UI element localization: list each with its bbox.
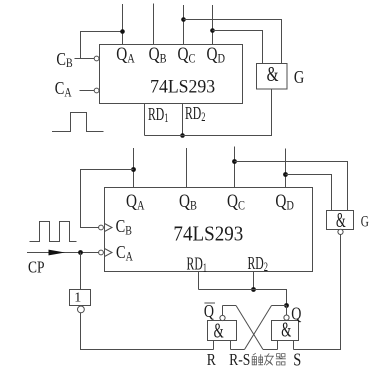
wire inverter output to R input xyxy=(81,313,214,350)
svg-text:QA: QA xyxy=(126,190,145,212)
junction RD2 on reset wire U2 xyxy=(251,287,256,292)
wire Q stub xyxy=(286,306,288,316)
junction RD2 on reset wire U1 xyxy=(180,133,185,138)
svg-text:&: & xyxy=(281,318,291,341)
double clock pulse symbol xyxy=(30,222,77,242)
pin RD1 of U1 xyxy=(145,104,169,136)
NAND gate U4A (RS flip-flop left) xyxy=(208,320,237,343)
wire CP to inverter input xyxy=(80,253,82,290)
chinese char qi (device) xyxy=(276,354,286,365)
inversion bubble CB pin U1 xyxy=(94,56,99,61)
pin RD1 of U2 xyxy=(187,254,207,289)
label CB input of U2 xyxy=(116,215,132,237)
junction QC line U1 xyxy=(181,17,186,22)
chinese char chu (touch) xyxy=(252,353,263,365)
junction CP wire to inverter xyxy=(78,250,83,255)
svg-text:CA: CA xyxy=(55,78,73,100)
dynamic input triangle CB U2 xyxy=(105,224,113,232)
arrowhead on CP wire xyxy=(49,250,66,256)
single clock pulse symbol xyxy=(52,113,104,132)
svg-text:&: & xyxy=(214,320,224,343)
label R xyxy=(207,351,217,370)
label Q xyxy=(291,305,302,324)
wire S-gate input segment xyxy=(263,349,278,351)
NAND gate U4B (RS flip-flop right) xyxy=(272,318,299,341)
junction QA line U1 xyxy=(120,29,125,34)
label G (top gate) xyxy=(294,66,305,87)
IC U2 74LS293 bottom counter body xyxy=(105,188,313,272)
wire cross-couple Q to R-gate diagonal xyxy=(245,306,272,350)
label CA input of U2 xyxy=(116,241,134,263)
pin QC of U2 (output stub) xyxy=(227,147,245,213)
svg-text:QB: QB xyxy=(179,190,197,212)
pin QB of U2 (output stub) xyxy=(179,148,197,213)
svg-text:CP: CP xyxy=(28,258,44,277)
IC U1 74LS293 top counter body xyxy=(100,45,243,104)
svg-text:QB: QB xyxy=(149,43,167,65)
output bubble U4A (Qbar) xyxy=(220,315,225,320)
junction QA line U2 xyxy=(131,167,136,172)
label CB input of U1 xyxy=(56,48,72,70)
label G (bottom gate) xyxy=(361,213,369,230)
svg-text:Q: Q xyxy=(291,305,302,324)
wire cross-couple Qbar to S-gate diagonal xyxy=(236,306,263,350)
svg-text:&: & xyxy=(336,209,346,232)
label CP xyxy=(28,258,44,277)
svg-text:QC: QC xyxy=(178,43,196,65)
pin QA of U1 (output stub) xyxy=(116,4,135,66)
wire G2 output to S input xyxy=(294,235,341,350)
label S xyxy=(293,349,301,370)
NAND gate G2 (bottom right) xyxy=(327,209,354,232)
pin QD of U1 (output stub) xyxy=(206,5,225,66)
wire CP input xyxy=(27,252,99,254)
svg-text:G: G xyxy=(361,213,369,230)
svg-text:R: R xyxy=(207,351,217,370)
wire CB input of U1 xyxy=(75,58,95,60)
output bubble gate G2 xyxy=(338,229,343,234)
pin second input stub U4B xyxy=(277,341,279,350)
inversion bubble CA pin U1 xyxy=(94,88,99,93)
wire QC to gate G1 input xyxy=(184,20,282,64)
pin RD2 of U1 xyxy=(183,104,206,136)
svg-text:CB: CB xyxy=(56,48,72,70)
wire QC to gate G2 input xyxy=(235,162,348,211)
pin S input stub U4B xyxy=(293,341,295,350)
wire Qbar stub xyxy=(222,306,224,316)
svg-text:S: S xyxy=(293,349,301,370)
svg-text:74LS293: 74LS293 xyxy=(150,76,215,97)
svg-text:74LS293: 74LS293 xyxy=(173,223,243,246)
dynamic input triangle CA U2 xyxy=(105,249,113,257)
output bubble inverter U3 xyxy=(78,306,85,313)
svg-text:QD: QD xyxy=(275,190,294,212)
inversion bubble CB pin U2 xyxy=(99,225,104,230)
wire CA input of U1 xyxy=(80,90,95,92)
svg-text:&: & xyxy=(267,62,279,85)
junction QC line U2 xyxy=(232,159,237,164)
pin QB of U1 (output stub) xyxy=(149,4,167,66)
wire reset bus U2 to flip-flop Q xyxy=(199,290,287,306)
inversion bubble CA pin U2 xyxy=(99,250,104,255)
junction QD line U2 xyxy=(283,172,288,177)
svg-text:RD2: RD2 xyxy=(248,254,268,275)
wire QD to gate G2 input xyxy=(286,175,332,211)
pin second input stub U4A xyxy=(230,341,232,350)
svg-text:RD2: RD2 xyxy=(185,104,205,125)
svg-text:Q: Q xyxy=(204,303,215,322)
svg-text:CA: CA xyxy=(116,241,134,263)
wire QD to gate G1 input xyxy=(213,31,263,64)
svg-text:QC: QC xyxy=(227,190,245,212)
svg-text:QD: QD xyxy=(206,43,225,65)
svg-text:QA: QA xyxy=(116,43,135,65)
chinese char fa (emit) xyxy=(264,353,274,365)
svg-text:CB: CB xyxy=(116,215,132,237)
wire QA feedback to CB (U2) xyxy=(81,170,134,228)
svg-text:R-S: R-S xyxy=(229,350,250,369)
junction Q node xyxy=(284,303,289,308)
output bubble U4B (Q) xyxy=(284,315,289,320)
pin QD of U2 (output stub) xyxy=(275,149,294,213)
svg-text:RD1: RD1 xyxy=(148,104,168,125)
pin RD2 of U2 xyxy=(248,254,268,290)
pin QA of U2 (output stub) xyxy=(126,148,145,213)
label CA input of U1 xyxy=(55,78,73,100)
wire cross-couple Q jog xyxy=(272,305,287,307)
junction QD line U1 xyxy=(210,28,215,33)
pin QC of U1 (output stub) xyxy=(178,5,196,66)
label Qbar xyxy=(204,303,215,322)
svg-text:G: G xyxy=(294,66,305,87)
wire reset bus U1 (RD1,RD2 to gate G1 output) xyxy=(145,89,272,136)
wire R-gate input segment xyxy=(231,349,245,351)
AND gate G1 (top) xyxy=(257,62,288,89)
wire QA feedback to CB (U1) xyxy=(81,32,123,59)
label R-S flip-flop (Chinese) xyxy=(229,350,250,369)
svg-text:1: 1 xyxy=(74,291,81,306)
svg-text:RD1: RD1 xyxy=(187,254,207,275)
pin R input stub U4A xyxy=(213,341,215,350)
wire cross-couple Qbar jog xyxy=(223,305,237,307)
inverter U3 box "1" xyxy=(70,290,91,306)
